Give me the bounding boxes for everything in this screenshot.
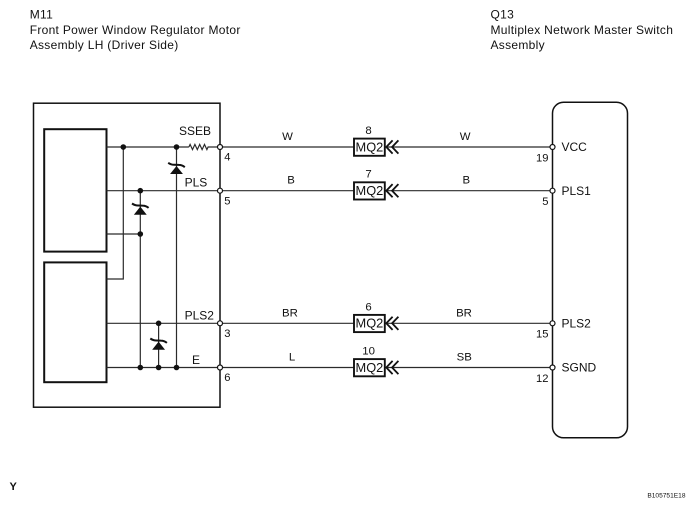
svg-text:B: B bbox=[287, 175, 295, 187]
svg-text:15: 15 bbox=[536, 329, 548, 341]
svg-text:MQ2: MQ2 bbox=[356, 360, 384, 375]
svg-text:PLS2: PLS2 bbox=[185, 308, 215, 322]
svg-text:6: 6 bbox=[224, 372, 230, 384]
svg-text:B: B bbox=[462, 175, 470, 187]
svg-text:SB: SB bbox=[457, 352, 472, 364]
svg-text:6: 6 bbox=[365, 301, 371, 313]
svg-text:5: 5 bbox=[542, 196, 548, 208]
svg-text:7: 7 bbox=[365, 169, 371, 181]
svg-text:Assembly LH (Driver Side): Assembly LH (Driver Side) bbox=[30, 38, 179, 52]
svg-text:PLS: PLS bbox=[185, 176, 208, 190]
svg-text:PLS1: PLS1 bbox=[562, 184, 592, 198]
svg-text:Y: Y bbox=[10, 481, 18, 493]
svg-text:W: W bbox=[460, 131, 471, 143]
svg-text:12: 12 bbox=[536, 373, 548, 385]
svg-text:L: L bbox=[289, 352, 295, 364]
svg-text:5: 5 bbox=[224, 195, 230, 207]
svg-text:BR: BR bbox=[282, 307, 298, 319]
svg-text:SSEB: SSEB bbox=[179, 124, 211, 138]
svg-text:BR: BR bbox=[456, 307, 472, 319]
svg-text:M11: M11 bbox=[30, 7, 53, 21]
svg-text:VCC: VCC bbox=[562, 140, 588, 154]
svg-text:W: W bbox=[282, 131, 293, 143]
svg-text:4: 4 bbox=[224, 152, 230, 164]
svg-text:E: E bbox=[192, 353, 200, 367]
svg-text:10: 10 bbox=[362, 346, 375, 358]
svg-text:MQ2: MQ2 bbox=[356, 316, 384, 331]
svg-text:PLS2: PLS2 bbox=[562, 317, 592, 331]
svg-text:8: 8 bbox=[365, 125, 371, 137]
svg-text:Assembly: Assembly bbox=[491, 38, 545, 52]
svg-text:MQ2: MQ2 bbox=[356, 183, 384, 198]
svg-text:B105751E18: B105751E18 bbox=[647, 493, 685, 500]
svg-text:3: 3 bbox=[224, 328, 230, 340]
svg-text:Multiplex Network Master Switc: Multiplex Network Master Switch bbox=[491, 23, 674, 37]
svg-text:Front Power Window Regulator M: Front Power Window Regulator Motor bbox=[30, 23, 241, 37]
svg-text:SGND: SGND bbox=[562, 361, 597, 375]
svg-text:Q13: Q13 bbox=[491, 7, 515, 21]
svg-text:MQ2: MQ2 bbox=[356, 139, 384, 154]
svg-text:19: 19 bbox=[536, 152, 548, 164]
